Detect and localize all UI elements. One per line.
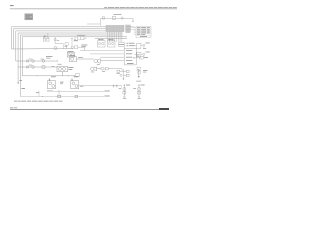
header title word blobs [108,6,115,9]
power rail above IC [87,18,133,25]
figure caption word blobs [14,100,17,103]
vreg cell Q0232 [123,86,126,97]
part number bold [159,108,169,110]
audio pa U0207 cluster [108,39,116,47]
table left stubs [134,27,136,34]
wire B to right [79,86,122,88]
rail end arrow [132,21,134,23]
bus wire 3 corner [16,31,106,61]
label below pi filter [136,80,141,83]
vreg cell Q0233 [138,86,141,97]
cap C0233 [76,74,80,76]
cap C0210 on rail [102,17,104,19]
marks inside shield [36,91,39,94]
connector stub C0250 top right [140,57,143,59]
stub from cluster A down [58,90,60,96]
junction dots [42,61,75,97]
resistor R0210 on rail [112,16,115,19]
wire under IC [95,37,127,39]
shield box bottom left [20,91,104,97]
labels near A cluster top [47,90,53,93]
label left of U0206 [46,55,53,58]
transistor pair Q0201 [43,33,49,41]
footer rule [10,108,169,111]
page number 7-64 [10,5,14,6]
IC U0231 cluster B [71,78,79,89]
series box R0251 on bottom wire [75,95,78,98]
inductor L0210 on rail [121,17,123,19]
resistor R0231 on wire1 [42,60,45,63]
ground arrow at bus4 [17,83,19,85]
wire row 2 [18,66,57,68]
cap C0220 [65,43,68,49]
table top right [136,27,151,38]
bus wire 5 corner [20,35,122,96]
pi filter chain right [137,67,142,76]
series box R0250 on bottom wire [58,95,61,98]
bus wire 6 corner [22,37,127,76]
net wire row 1 [54,90,104,92]
connector J0202 [124,48,136,65]
label between A and B [60,81,64,84]
IC pin stubs below [108,32,122,43]
filter cell FL0201 [135,43,145,48]
mic MK0201 [91,67,101,71]
rail label [114,13,122,16]
IC U0230 cluster A [48,78,56,89]
value boxes above J0202 [119,42,125,48]
bracket right of J0202 [137,54,140,57]
filter block U0205 [67,52,74,57]
scattered value labels [29,7,107,72]
filter cell FL0202 [135,52,145,57]
caps C0240 C0241 series [101,68,122,71]
ground symbols left of regulators [112,85,118,87]
label near bus5 [19,79,22,82]
connector strip U0202 [126,25,131,33]
resistor R0220 on mid wire [54,47,57,50]
audio IC U0206 box [57,66,68,76]
cap C0231 on wire2 [27,66,29,68]
network U0204 [71,46,84,51]
J0201 label [22,87,25,90]
speaker LS0201 [94,57,124,63]
bus wire 4 corner [18,33,122,83]
bottom wire end label [104,95,110,98]
bus wire 2 corner [14,29,106,49]
bias network R0240 group [117,69,129,79]
bus wire 1 corner [12,27,107,49]
resistor R0232 on wire2 [32,66,35,69]
connector arrow J0203 [74,36,86,40]
revision stamp box [25,14,33,20]
label on wire2 [52,65,55,68]
net arrow labels above J0202 [126,43,129,47]
IC U0201 shaded box [106,26,124,32]
audio pa U0203 cluster [98,39,106,47]
issued date blobs [10,106,13,109]
op-amp U0210 [69,57,94,62]
junction on wire3 [36,74,39,77]
wire to connector row1 [80,50,124,52]
net stubs right of strip [131,26,135,29]
cap C0232 on wire2 [42,66,45,68]
resistor R0230 on wire1 [27,60,29,62]
arrow into U0204 [71,39,73,46]
resistor R0221 on stub [54,37,63,49]
top header rule [10,8,177,11]
